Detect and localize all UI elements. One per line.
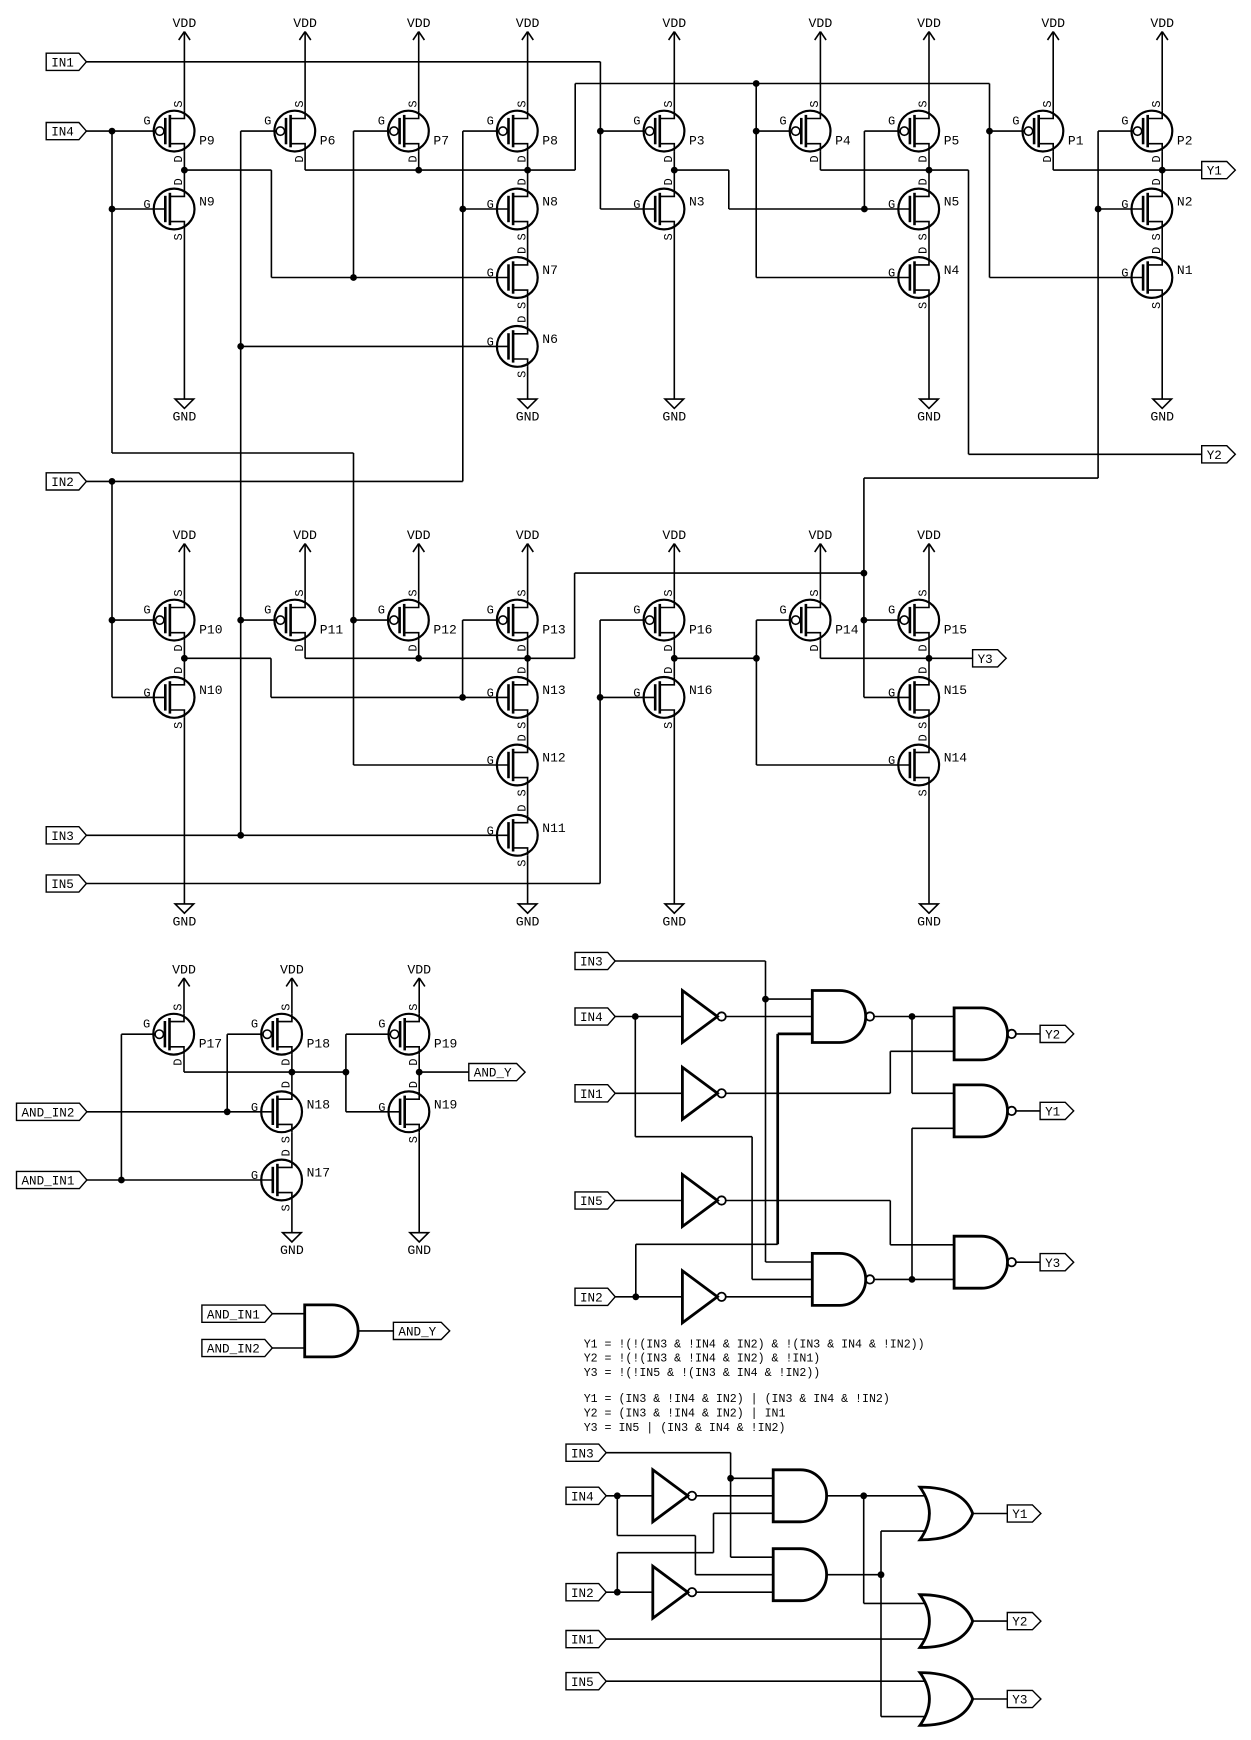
svg-text:P3: P3 [689, 134, 705, 149]
svg-text:Y3 = !(!IN5 & !(IN3 & IN4 & !I: Y3 = !(!IN5 & !(IN3 & IN4 & !IN2)) [584, 1367, 821, 1380]
svg-text:IN2: IN2 [51, 476, 74, 490]
svg-text:G: G [251, 1169, 258, 1183]
svg-text:IN5: IN5 [580, 1195, 603, 1209]
svg-text:P16: P16 [689, 623, 712, 638]
svg-text:D: D [172, 644, 186, 651]
svg-text:D: D [515, 734, 529, 741]
svg-text:P15: P15 [944, 623, 967, 638]
svg-text:N18: N18 [307, 1097, 330, 1112]
svg-text:G: G [779, 115, 786, 129]
svg-text:S: S [662, 100, 676, 107]
svg-text:N11: N11 [542, 821, 566, 836]
svg-text:S: S [917, 789, 931, 796]
svg-text:D: D [172, 1058, 186, 1065]
svg-text:VDD: VDD [917, 16, 941, 31]
svg-text:S: S [515, 722, 529, 729]
svg-text:S: S [515, 789, 529, 796]
svg-text:G: G [487, 754, 494, 768]
svg-text:GND: GND [280, 1243, 304, 1258]
svg-text:VDD: VDD [662, 528, 686, 543]
svg-text:P13: P13 [542, 623, 565, 638]
svg-text:G: G [487, 604, 494, 618]
svg-text:N16: N16 [689, 683, 712, 698]
svg-text:VDD: VDD [280, 963, 304, 978]
svg-text:D: D [662, 155, 676, 162]
svg-text:N2: N2 [1177, 195, 1193, 210]
svg-text:Y1 = !(!(IN3 & !IN4 & IN2) & !: Y1 = !(!(IN3 & !IN4 & IN2) & !(IN3 & IN4… [584, 1338, 925, 1351]
svg-text:S: S [917, 589, 931, 596]
svg-text:G: G [1121, 267, 1128, 281]
svg-text:IN3: IN3 [580, 956, 603, 970]
svg-text:G: G [633, 115, 640, 129]
svg-text:IN4: IN4 [51, 126, 74, 140]
svg-text:Y2: Y2 [1207, 449, 1222, 463]
svg-text:N13: N13 [542, 683, 565, 698]
svg-text:N3: N3 [689, 195, 705, 210]
svg-text:S: S [172, 100, 186, 107]
svg-text:Y2 = !(!(IN3 & !IN4 & IN2) & !: Y2 = !(!(IN3 & !IN4 & IN2) & !IN1) [584, 1353, 821, 1366]
svg-text:N14: N14 [944, 751, 968, 766]
svg-text:AND_IN1: AND_IN1 [207, 1308, 260, 1322]
svg-text:VDD: VDD [293, 528, 317, 543]
svg-text:N4: N4 [944, 263, 960, 278]
svg-text:S: S [1150, 302, 1164, 309]
svg-text:S: S [280, 1136, 294, 1143]
svg-text:G: G [1121, 198, 1128, 212]
svg-text:S: S [917, 722, 931, 729]
svg-text:S: S [515, 589, 529, 596]
svg-text:D: D [662, 178, 676, 185]
svg-text:S: S [662, 589, 676, 596]
svg-text:P12: P12 [433, 623, 456, 638]
svg-text:D: D [515, 178, 529, 185]
svg-text:S: S [808, 589, 822, 596]
svg-text:GND: GND [1150, 410, 1174, 425]
svg-text:D: D [808, 155, 822, 162]
svg-text:P9: P9 [199, 134, 215, 149]
svg-text:N17: N17 [307, 1166, 330, 1181]
svg-text:G: G [487, 198, 494, 212]
svg-text:G: G [251, 1018, 258, 1032]
svg-text:D: D [515, 644, 529, 651]
svg-text:IN5: IN5 [51, 878, 74, 892]
svg-text:AND_IN1: AND_IN1 [22, 1175, 75, 1189]
svg-text:P1: P1 [1068, 134, 1084, 149]
svg-text:D: D [407, 1081, 421, 1088]
svg-text:D: D [280, 1081, 294, 1088]
svg-text:IN5: IN5 [571, 1676, 594, 1690]
svg-text:D: D [515, 316, 529, 323]
svg-text:D: D [406, 155, 420, 162]
svg-text:D: D [515, 667, 529, 674]
svg-text:D: D [1150, 178, 1164, 185]
svg-text:S: S [662, 722, 676, 729]
svg-text:G: G [888, 115, 895, 129]
svg-text:S: S [515, 860, 529, 867]
svg-text:Y3: Y3 [1045, 1257, 1060, 1271]
svg-text:S: S [172, 589, 186, 596]
svg-text:G: G [487, 686, 494, 700]
svg-text:P4: P4 [835, 134, 851, 149]
svg-text:G: G [487, 115, 494, 129]
svg-text:S: S [515, 100, 529, 107]
svg-text:IN4: IN4 [580, 1011, 603, 1025]
svg-text:GND: GND [662, 410, 686, 425]
svg-text:Y3: Y3 [978, 653, 993, 667]
svg-text:S: S [662, 233, 676, 240]
svg-text:S: S [515, 302, 529, 309]
svg-text:VDD: VDD [293, 16, 317, 31]
svg-text:D: D [515, 247, 529, 254]
svg-text:D: D [917, 247, 931, 254]
svg-text:S: S [515, 371, 529, 378]
svg-text:G: G [888, 686, 895, 700]
svg-text:D: D [1041, 155, 1055, 162]
svg-text:S: S [407, 1003, 421, 1010]
svg-text:G: G [888, 754, 895, 768]
svg-text:G: G [143, 198, 150, 212]
svg-text:N12: N12 [542, 751, 565, 766]
svg-text:G: G [378, 1101, 385, 1115]
svg-text:N1: N1 [1177, 263, 1193, 278]
svg-text:P17: P17 [199, 1037, 222, 1052]
svg-text:Y3: Y3 [1012, 1694, 1027, 1708]
svg-text:IN3: IN3 [51, 830, 74, 844]
svg-text:G: G [143, 604, 150, 618]
svg-text:GND: GND [516, 914, 540, 929]
svg-text:S: S [406, 100, 420, 107]
svg-text:N9: N9 [199, 195, 215, 210]
svg-text:D: D [917, 644, 931, 651]
svg-text:VDD: VDD [516, 16, 540, 31]
svg-text:D: D [917, 734, 931, 741]
svg-text:G: G [264, 115, 271, 129]
svg-text:VDD: VDD [1041, 16, 1065, 31]
svg-text:N15: N15 [944, 683, 967, 698]
svg-text:G: G [264, 604, 271, 618]
svg-text:D: D [293, 155, 307, 162]
svg-text:G: G [251, 1101, 258, 1115]
svg-text:Y1: Y1 [1045, 1106, 1060, 1120]
svg-text:N8: N8 [542, 195, 558, 210]
svg-text:Y1: Y1 [1012, 1508, 1027, 1522]
svg-text:D: D [280, 1149, 294, 1156]
svg-text:N6: N6 [542, 332, 558, 347]
svg-text:IN1: IN1 [571, 1634, 594, 1648]
svg-text:VDD: VDD [407, 16, 431, 31]
svg-text:D: D [917, 667, 931, 674]
svg-text:S: S [293, 100, 307, 107]
svg-text:VDD: VDD [917, 528, 941, 543]
svg-text:P18: P18 [307, 1037, 330, 1052]
svg-text:VDD: VDD [809, 528, 833, 543]
svg-text:S: S [917, 233, 931, 240]
svg-text:G: G [143, 115, 150, 129]
svg-text:GND: GND [173, 914, 197, 929]
svg-text:D: D [172, 667, 186, 674]
svg-text:D: D [293, 644, 307, 651]
svg-text:D: D [172, 155, 186, 162]
svg-text:P8: P8 [542, 134, 558, 149]
svg-text:D: D [917, 178, 931, 185]
svg-text:VDD: VDD [172, 963, 196, 978]
svg-text:N5: N5 [944, 195, 960, 210]
svg-text:N19: N19 [434, 1097, 457, 1112]
svg-text:S: S [1150, 233, 1164, 240]
svg-text:S: S [808, 100, 822, 107]
svg-text:G: G [378, 1018, 385, 1032]
svg-text:S: S [172, 233, 186, 240]
svg-text:D: D [1150, 247, 1164, 254]
svg-text:S: S [1041, 100, 1055, 107]
svg-text:G: G [633, 686, 640, 700]
svg-text:D: D [808, 644, 822, 651]
svg-text:P19: P19 [434, 1037, 457, 1052]
svg-text:VDD: VDD [173, 528, 197, 543]
svg-text:GND: GND [662, 914, 686, 929]
svg-text:Y2 = (IN3 & !IN4 & IN2) | IN1: Y2 = (IN3 & !IN4 & IN2) | IN1 [584, 1408, 786, 1421]
svg-text:AND_Y: AND_Y [398, 1326, 436, 1340]
svg-text:G: G [888, 267, 895, 281]
svg-text:D: D [515, 155, 529, 162]
svg-text:AND_Y: AND_Y [474, 1067, 512, 1081]
svg-text:G: G [143, 1018, 150, 1032]
svg-text:GND: GND [917, 914, 941, 929]
svg-text:P5: P5 [944, 134, 960, 149]
svg-text:VDD: VDD [407, 963, 431, 978]
svg-text:Y1: Y1 [1207, 165, 1222, 179]
svg-text:GND: GND [917, 410, 941, 425]
svg-text:IN1: IN1 [51, 56, 74, 70]
svg-text:S: S [515, 233, 529, 240]
svg-text:GND: GND [516, 410, 540, 425]
svg-text:G: G [888, 604, 895, 618]
svg-text:P2: P2 [1177, 134, 1193, 149]
svg-text:S: S [407, 1136, 421, 1143]
svg-text:S: S [280, 1003, 294, 1010]
svg-text:P11: P11 [320, 623, 344, 638]
svg-text:D: D [172, 178, 186, 185]
svg-text:G: G [633, 604, 640, 618]
svg-text:S: S [172, 722, 186, 729]
svg-text:VDD: VDD [662, 16, 686, 31]
svg-text:D: D [662, 667, 676, 674]
svg-text:VDD: VDD [407, 528, 431, 543]
svg-text:S: S [1150, 100, 1164, 107]
svg-text:G: G [1012, 115, 1019, 129]
svg-text:D: D [406, 644, 420, 651]
svg-text:AND_IN2: AND_IN2 [207, 1343, 260, 1357]
svg-text:IN1: IN1 [580, 1088, 603, 1102]
svg-text:N7: N7 [542, 263, 558, 278]
svg-text:VDD: VDD [1150, 16, 1174, 31]
svg-text:D: D [407, 1058, 421, 1065]
svg-text:D: D [515, 805, 529, 812]
svg-text:G: G [143, 686, 150, 700]
svg-text:Y3 = IN5 | (IN3 & IN4 & !IN2): Y3 = IN5 | (IN3 & IN4 & !IN2) [584, 1422, 786, 1435]
svg-text:IN3: IN3 [571, 1447, 594, 1461]
svg-text:D: D [917, 155, 931, 162]
svg-text:VDD: VDD [809, 16, 833, 31]
svg-text:P10: P10 [199, 623, 222, 638]
svg-text:IN2: IN2 [580, 1291, 603, 1305]
svg-text:G: G [378, 115, 385, 129]
svg-text:Y1 = (IN3 & !IN4 & IN2) | (IN3: Y1 = (IN3 & !IN4 & IN2) | (IN3 & IN4 & !… [584, 1393, 890, 1406]
svg-text:N10: N10 [199, 683, 222, 698]
svg-text:GND: GND [407, 1243, 431, 1258]
svg-text:D: D [280, 1058, 294, 1065]
svg-text:S: S [917, 100, 931, 107]
svg-text:P7: P7 [433, 134, 449, 149]
svg-text:G: G [487, 335, 494, 349]
svg-text:S: S [917, 302, 931, 309]
svg-text:G: G [633, 198, 640, 212]
svg-text:S: S [293, 589, 307, 596]
svg-text:VDD: VDD [173, 16, 197, 31]
svg-text:S: S [406, 589, 420, 596]
svg-text:G: G [487, 267, 494, 281]
svg-text:G: G [1121, 115, 1128, 129]
svg-text:GND: GND [173, 410, 197, 425]
svg-text:D: D [1150, 155, 1164, 162]
svg-text:G: G [487, 824, 494, 838]
svg-text:S: S [172, 1003, 186, 1010]
svg-text:G: G [378, 604, 385, 618]
svg-text:IN4: IN4 [571, 1490, 594, 1504]
svg-text:Y2: Y2 [1045, 1029, 1060, 1043]
svg-text:AND_IN2: AND_IN2 [22, 1106, 75, 1120]
svg-text:D: D [662, 644, 676, 651]
svg-text:IN2: IN2 [571, 1587, 594, 1601]
svg-text:Y2: Y2 [1012, 1616, 1027, 1630]
svg-text:VDD: VDD [516, 528, 540, 543]
svg-text:G: G [888, 198, 895, 212]
svg-text:S: S [280, 1204, 294, 1211]
svg-text:P14: P14 [835, 623, 859, 638]
svg-text:G: G [779, 604, 786, 618]
svg-text:P6: P6 [320, 134, 336, 149]
